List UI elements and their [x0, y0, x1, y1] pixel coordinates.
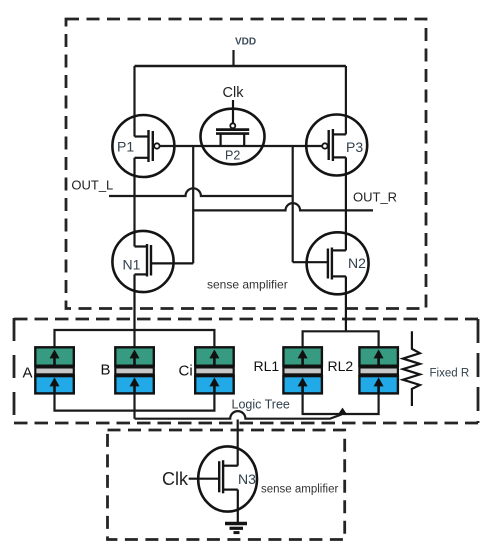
wire OUT_L with hop	[109, 188, 293, 196]
wire RL bottom bus	[303, 393, 379, 414]
svg-text:B: B	[101, 362, 111, 379]
wire B top stub	[133, 330, 135, 347]
MTJ RL2	[359, 347, 398, 394]
resistor Fixed R	[403, 331, 420, 406]
svg-text:Ci: Ci	[179, 363, 193, 380]
svg-text:Clk: Clk	[162, 469, 189, 489]
svg-text:P1: P1	[117, 139, 134, 155]
transistor N1	[112, 231, 193, 330]
svg-text:Logic Tree: Logic Tree	[232, 398, 290, 412]
svg-text:Fixed R: Fixed R	[430, 368, 470, 380]
wire cross vertical left x193	[192, 146, 194, 263]
dashed box: top sense amplifier	[66, 19, 426, 309]
transistor P3	[306, 115, 367, 211]
dashed box: logic tree	[14, 318, 478, 423]
wire OUT_R with hop	[193, 203, 373, 210]
wire lower bottom bus with hop to RL junction	[135, 411, 342, 419]
transistor P1	[112, 115, 174, 196]
svg-text:sense amplifier: sense amplifier	[207, 278, 288, 292]
wire B bottom stub to lower bus	[133, 393, 135, 418]
transistor N2	[293, 210, 369, 331]
svg-text:N3: N3	[238, 471, 256, 487]
transistor P2	[201, 100, 265, 164]
MTJ B	[115, 347, 154, 394]
wire N3 drain vertical	[237, 420, 239, 466]
wire OUT_L column to N1	[133, 196, 135, 247]
wire cross vertical right x292	[292, 146, 294, 262]
svg-text:RL1: RL1	[254, 358, 280, 374]
MTJ RL1	[283, 347, 322, 394]
svg-text:OUT_R: OUT_R	[353, 190, 397, 205]
svg-text:RL2: RL2	[328, 358, 354, 374]
svg-text:Clk: Clk	[223, 85, 245, 101]
wire logic tree left top bus	[55, 330, 215, 347]
svg-text:sense amplifier: sense amplifier	[261, 484, 339, 496]
wire VDD rail	[135, 65, 346, 67]
svg-text:P3: P3	[346, 139, 363, 155]
svg-text:P2: P2	[225, 149, 240, 163]
transistor N3	[189, 446, 257, 522]
wire right column VDD to P3	[345, 66, 347, 134]
svg-text:N2: N2	[348, 255, 366, 271]
wire RL top bus	[303, 331, 379, 346]
wire left column VDD to P1	[133, 66, 135, 137]
ground	[225, 524, 247, 533]
dashed box: bottom sense amplifier	[108, 430, 345, 540]
wire upper bottom bus A to Ci	[55, 393, 215, 410]
svg-text:VDD: VDD	[235, 37, 256, 48]
wire VDD stub	[232, 50, 234, 66]
svg-text:N1: N1	[123, 257, 141, 273]
svg-text:A: A	[23, 365, 33, 382]
MTJ Ci	[195, 347, 234, 394]
MTJ A	[35, 347, 74, 394]
wire cross-couple mid line y146	[160, 145, 323, 147]
svg-text:OUT_L: OUT_L	[71, 178, 113, 193]
junction arrow on bottom bus	[338, 408, 348, 415]
